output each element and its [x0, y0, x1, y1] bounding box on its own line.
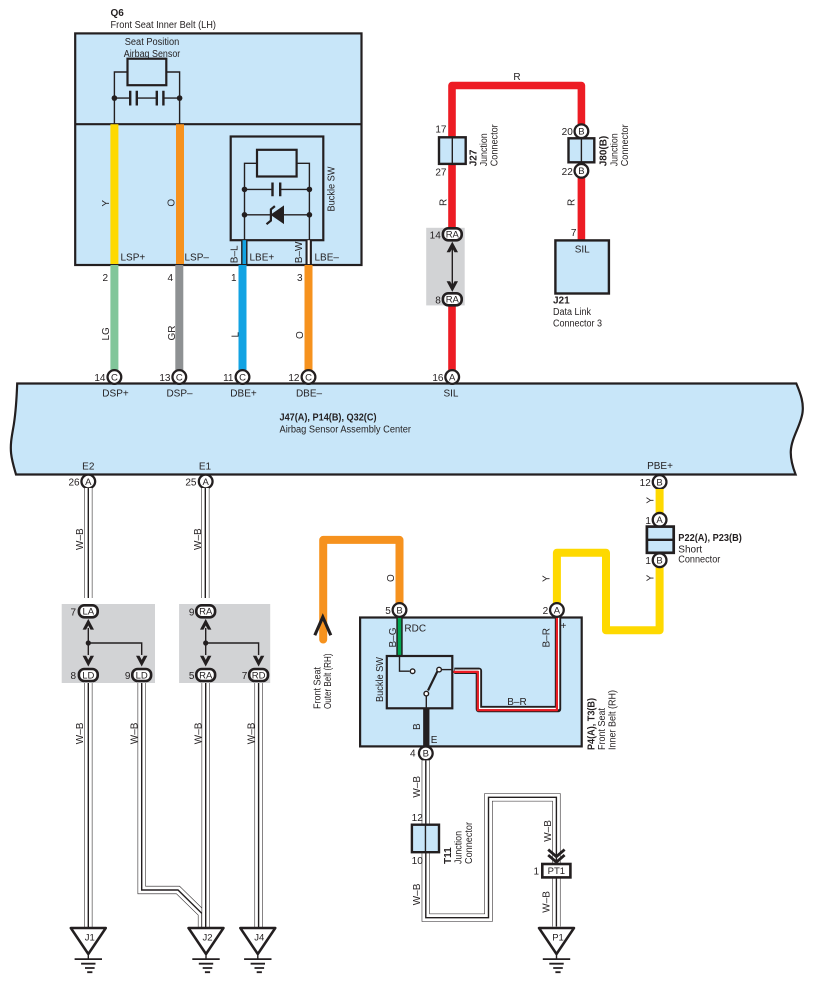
- svg-text:14: 14: [430, 230, 442, 241]
- pin 26 A: [68, 475, 95, 489]
- switch blade: [428, 672, 437, 691]
- ground P1: [539, 928, 574, 972]
- svg-text:SIL: SIL: [575, 245, 590, 256]
- svg-text:12: 12: [412, 813, 424, 824]
- svg-text:8: 8: [435, 295, 441, 306]
- svg-text:R: R: [567, 199, 578, 206]
- svg-text:Seat Position: Seat Position: [125, 37, 180, 48]
- pin 13 C: [159, 370, 186, 384]
- svg-text:2: 2: [102, 273, 108, 284]
- junction connector J80(B): [569, 138, 595, 162]
- svg-text:PT1: PT1: [548, 866, 565, 877]
- component J21 Data Link Connector 3: [555, 240, 609, 293]
- svg-text:LD: LD: [136, 670, 148, 681]
- splice 7 LA: [79, 605, 98, 617]
- buckle SW box in Q6: [231, 137, 324, 241]
- svg-text:O: O: [295, 331, 306, 339]
- svg-text:DBE+: DBE+: [230, 389, 257, 400]
- junction connector J27: [439, 137, 466, 164]
- svg-text:C: C: [111, 372, 118, 383]
- svg-text:Junction: Junction: [454, 831, 465, 864]
- svg-text:Airbag Sensor Assembly Center: Airbag Sensor Assembly Center: [280, 425, 412, 436]
- svg-text:O: O: [167, 199, 178, 207]
- svg-text:B: B: [656, 477, 662, 488]
- wire R main run: [452, 86, 581, 371]
- wire W-B 5RA to J2: [205, 682, 207, 928]
- svg-text:W–B: W–B: [193, 528, 204, 550]
- left ground wiring: [62, 488, 276, 972]
- splice 9 LD: [132, 669, 151, 681]
- wire W-B from 4B through T11 to PT1: [426, 760, 557, 917]
- svg-text:10: 10: [412, 856, 424, 867]
- pin 22 B: [575, 164, 589, 178]
- svg-text:Outer Belt (RH): Outer Belt (RH): [323, 654, 334, 710]
- svg-text:2: 2: [543, 606, 549, 617]
- svg-text:A: A: [85, 477, 92, 488]
- svg-text:RA: RA: [199, 607, 213, 618]
- svg-text:SIL: SIL: [443, 389, 458, 400]
- splice 5 RA: [196, 669, 215, 681]
- svg-text:J80(B): J80(B): [599, 136, 610, 167]
- svg-text:Connector: Connector: [620, 124, 631, 167]
- svg-text:20: 20: [562, 127, 574, 138]
- pin 25 A: [185, 475, 212, 489]
- svg-text:12: 12: [288, 373, 300, 384]
- svg-text:P1: P1: [552, 933, 564, 944]
- svg-text:Data Link: Data Link: [553, 307, 592, 318]
- svg-text:Buckle SW: Buckle SW: [327, 166, 338, 212]
- pin 5 B: [393, 603, 407, 617]
- svg-text:E: E: [431, 735, 438, 746]
- ECU band J47: [11, 370, 803, 489]
- svg-text:B: B: [578, 127, 584, 138]
- zener diode row: [245, 214, 310, 216]
- connector PT1: [542, 864, 570, 877]
- svg-text:Y: Y: [645, 497, 656, 504]
- pin 20 B: [575, 124, 589, 138]
- svg-text:B–R: B–R: [542, 628, 553, 647]
- svg-text:B: B: [423, 749, 429, 760]
- double chevron splice above PT1: [548, 850, 564, 863]
- svg-text:Y: Y: [645, 574, 656, 581]
- arrow between RA ovals: [451, 248, 453, 286]
- svg-text:DSP+: DSP+: [102, 389, 129, 400]
- svg-text:P22(A), P23(B): P22(A), P23(B): [678, 533, 742, 544]
- svg-text:J1: J1: [85, 933, 95, 944]
- svg-text:RA: RA: [446, 295, 460, 306]
- svg-text:7: 7: [70, 607, 76, 618]
- svg-text:B: B: [396, 605, 402, 616]
- svg-text:22: 22: [562, 167, 574, 178]
- svg-text:W–B: W–B: [130, 722, 141, 744]
- svg-text:LG: LG: [101, 327, 112, 341]
- svg-text:1: 1: [231, 273, 237, 284]
- shielded splice box RA-RA: [426, 228, 465, 306]
- svg-text:+: +: [561, 621, 567, 632]
- ground J1: [71, 928, 106, 972]
- svg-text:Connector: Connector: [464, 821, 475, 864]
- svg-text:B: B: [578, 166, 584, 177]
- svg-text:4: 4: [167, 273, 173, 284]
- wire R J80 to SIL: [578, 178, 586, 241]
- wire W-B 9LD jog to J2: [142, 682, 202, 928]
- svg-text:11: 11: [223, 373, 234, 384]
- svg-text:B: B: [656, 556, 662, 567]
- svg-text:LSP–: LSP–: [185, 253, 210, 264]
- svg-text:Connector 3: Connector 3: [553, 319, 602, 330]
- svg-text:B–R: B–R: [507, 697, 526, 708]
- component Q6 Front Seat Inner Belt (LH) box: [75, 33, 361, 265]
- zener diode: [271, 206, 283, 223]
- svg-text:12: 12: [640, 478, 652, 489]
- svg-text:LBE–: LBE–: [315, 253, 340, 264]
- svg-text:4: 4: [410, 749, 416, 760]
- wire B-W (LBE-): [306, 240, 312, 264]
- svg-text:W–B: W–B: [75, 528, 86, 550]
- svg-text:E2: E2: [82, 462, 95, 473]
- arrowheads: [83, 619, 94, 630]
- pin 1 B: [653, 553, 667, 567]
- svg-text:LA: LA: [82, 607, 94, 618]
- svg-text:P4(A), T3(B): P4(A), T3(B): [587, 698, 598, 750]
- capacitor row: [245, 188, 310, 190]
- svg-text:1: 1: [645, 556, 651, 567]
- svg-text:9: 9: [189, 607, 195, 618]
- junction dots: [112, 95, 118, 101]
- svg-text:C: C: [176, 372, 183, 383]
- svg-text:L: L: [231, 332, 242, 338]
- svg-text:A: A: [449, 372, 456, 383]
- svg-text:1: 1: [533, 866, 539, 877]
- svg-text:J2: J2: [202, 933, 212, 944]
- svg-text:27: 27: [435, 168, 447, 179]
- svg-text:Connector: Connector: [490, 124, 501, 167]
- svg-text:RDC: RDC: [404, 624, 426, 635]
- pin 4 B: [419, 746, 433, 760]
- seat position airbag sensor element: [114, 59, 179, 125]
- svg-text:Front Seat: Front Seat: [313, 667, 324, 709]
- svg-text:7: 7: [242, 671, 248, 682]
- svg-text:C: C: [305, 372, 312, 383]
- svg-text:W–B: W–B: [194, 722, 205, 744]
- wire O (LSP-): [176, 124, 184, 264]
- svg-text:W–B: W–B: [543, 820, 554, 842]
- svg-text:B–W: B–W: [294, 241, 305, 263]
- wire GR: [175, 265, 183, 371]
- wire O to outer belt: [323, 540, 399, 640]
- wire LG: [110, 265, 118, 371]
- pin 12 B: [640, 475, 667, 489]
- junction dots buckle: [242, 187, 248, 193]
- svg-text:Buckle SW: Buckle SW: [375, 656, 386, 702]
- svg-text:O: O: [386, 574, 397, 582]
- buckle SW inner box: [387, 656, 453, 708]
- buckle sensor rect: [257, 150, 297, 177]
- svg-text:A: A: [656, 515, 663, 526]
- svg-text:W–B: W–B: [542, 891, 553, 913]
- svg-text:W–B: W–B: [412, 883, 423, 905]
- pin 14 C: [94, 370, 121, 384]
- pin 1 A: [653, 513, 667, 527]
- svg-text:PBE+: PBE+: [647, 461, 673, 472]
- svg-text:Connector: Connector: [678, 555, 721, 566]
- splice box LA/LD: [62, 604, 155, 683]
- svg-text:25: 25: [185, 478, 197, 489]
- svg-text:Front Seat Inner Belt (LH): Front Seat Inner Belt (LH): [111, 20, 217, 31]
- junction connector T11: [412, 825, 439, 853]
- svg-text:17: 17: [435, 125, 447, 136]
- wire O: [305, 265, 313, 371]
- svg-text:Junction: Junction: [479, 133, 490, 166]
- svg-text:J47(A), P14(B), Q32(C): J47(A), P14(B), Q32(C): [280, 413, 377, 424]
- ground J4: [240, 928, 275, 972]
- splice 8 LD: [79, 669, 98, 681]
- svg-text:Y: Y: [101, 200, 112, 207]
- wires from Q6 down to band: [101, 265, 309, 371]
- svg-text:DSP–: DSP–: [166, 389, 193, 400]
- wire B thick black: [423, 708, 429, 749]
- splice 14 RA: [443, 228, 462, 240]
- svg-text:1: 1: [645, 516, 651, 527]
- wire B-G: [396, 617, 402, 655]
- svg-text:9: 9: [125, 671, 131, 682]
- wire W-B E1: [204, 488, 206, 598]
- wire B-L (LBE+): [241, 240, 247, 264]
- wire B-R: [453, 612, 558, 710]
- svg-text:LD: LD: [82, 670, 94, 681]
- svg-text:T11: T11: [443, 847, 454, 864]
- svg-text:RD: RD: [252, 670, 266, 681]
- svg-text:3: 3: [297, 273, 303, 284]
- svg-text:16: 16: [432, 373, 444, 384]
- svg-text:J4: J4: [254, 933, 264, 944]
- switch contacts: [400, 656, 410, 671]
- splice 8 RA: [443, 293, 462, 305]
- wire W-B 7RD to J4: [258, 682, 260, 928]
- svg-text:5: 5: [385, 606, 391, 617]
- ECU block J47(A) P14(B) Q32(C) Airbag Sensor Assembly Center: [11, 384, 803, 475]
- svg-text:W–B: W–B: [75, 722, 86, 744]
- svg-text:LSP+: LSP+: [121, 253, 146, 264]
- pin 2 A: [550, 603, 564, 617]
- component P22(A) P23(B) Short Connector: [647, 527, 674, 553]
- wire Y jog short connector to 2A: [557, 553, 660, 631]
- svg-text:14: 14: [94, 373, 106, 384]
- svg-text:A: A: [554, 605, 561, 616]
- svg-text:B: B: [412, 723, 423, 730]
- wire W-B E2: [87, 488, 89, 598]
- splice 7 RD: [249, 669, 268, 681]
- svg-text:RA: RA: [446, 230, 460, 241]
- pin 16 A: [432, 370, 459, 384]
- pin 11 C: [223, 370, 249, 384]
- pin 12 C: [288, 370, 315, 384]
- wire Y (LSP+): [110, 124, 118, 264]
- off-page arrow Front Seat Outer Belt (RH): [315, 617, 331, 635]
- wire W-B PT1 to P1: [555, 878, 557, 927]
- svg-text:LBE+: LBE+: [250, 253, 275, 264]
- svg-text:E1: E1: [199, 462, 212, 473]
- svg-text:RA: RA: [199, 670, 213, 681]
- svg-text:Junction: Junction: [610, 133, 621, 166]
- svg-text:R: R: [513, 72, 520, 83]
- Q6 internal divider: [75, 123, 361, 125]
- svg-text:8: 8: [70, 671, 76, 682]
- svg-text:W–B: W–B: [412, 776, 423, 798]
- svg-text:7: 7: [571, 228, 577, 239]
- svg-text:GR: GR: [167, 326, 178, 341]
- ground J2: [189, 928, 224, 972]
- svg-text:Inner Belt (RH): Inner Belt (RH): [607, 690, 618, 750]
- svg-text:B–G: B–G: [388, 627, 399, 647]
- splice box RA/RD: [179, 604, 270, 683]
- wire W-B to J1: [87, 682, 89, 928]
- svg-text:J21: J21: [553, 296, 570, 307]
- svg-text:W–B: W–B: [247, 722, 258, 744]
- splice 9 RA: [196, 605, 215, 617]
- component P4(A) T3(B) Front Seat Inner Belt (RH) box: [360, 618, 582, 747]
- wire L: [239, 265, 247, 371]
- svg-text:5: 5: [189, 671, 195, 682]
- red SIL circuit top right: [426, 72, 631, 371]
- wire Y from PBE+: [656, 489, 664, 553]
- svg-text:13: 13: [159, 373, 171, 384]
- svg-text:Y: Y: [541, 575, 552, 582]
- short connector P22/P23: [645, 513, 741, 567]
- svg-text:26: 26: [68, 478, 80, 489]
- Q6 component box: [75, 8, 361, 265]
- svg-text:A: A: [203, 477, 210, 488]
- branch lines: [88, 628, 141, 655]
- svg-text:Q6: Q6: [111, 8, 125, 19]
- svg-text:B–L: B–L: [229, 245, 240, 263]
- right bottom section: [313, 489, 742, 972]
- svg-text:R: R: [439, 199, 450, 206]
- svg-text:C: C: [239, 372, 246, 383]
- svg-text:DBE–: DBE–: [296, 389, 323, 400]
